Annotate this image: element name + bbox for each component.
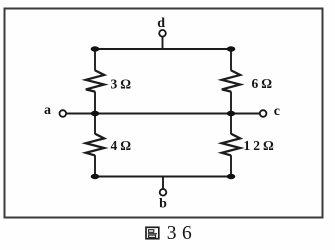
svg-text:d: d — [157, 16, 165, 31]
value label 12 ohm — [244, 138, 277, 153]
svg-text:b: b — [159, 197, 167, 212]
svg-text:36: 36 — [167, 223, 198, 244]
caption glyph "tu" (figure) drawn manually — [146, 227, 159, 238]
wire right branch upper lead — [230, 49, 232, 71]
junction top-left — [91, 46, 100, 51]
caption number 36 — [167, 223, 198, 244]
junction bottom-right — [227, 174, 236, 179]
wire left branch lower lead — [94, 155, 96, 176]
wire left branch mid-lower lead — [94, 114, 96, 135]
junction mid-left — [91, 111, 100, 116]
terminal node a circle — [60, 110, 67, 117]
junction mid-right — [227, 111, 236, 116]
wire right branch mid-lower lead — [230, 114, 232, 135]
wire right branch lower lead — [230, 155, 232, 176]
value label 4 ohm — [111, 138, 135, 153]
svg-text:a: a — [44, 103, 51, 118]
terminal node d circle — [159, 30, 166, 37]
terminal node c circle — [260, 110, 267, 117]
wire bottom rail — [95, 176, 231, 178]
wire right branch mid-upper lead — [230, 91, 232, 113]
junction bottom-left — [91, 174, 100, 179]
svg-text:4Ω: 4Ω — [111, 138, 135, 153]
resistor 12ohm zigzag — [222, 134, 240, 156]
wire top rail — [95, 48, 231, 50]
resistor 4ohm zigzag — [86, 134, 104, 156]
terminal node b circle — [160, 189, 167, 196]
wire middle rail — [66, 113, 259, 115]
wire terminal b stub — [162, 177, 164, 189]
svg-text:3Ω: 3Ω — [111, 76, 135, 91]
border frame (decorative) — [5, 9, 323, 218]
resistor 6ohm zigzag — [222, 70, 240, 91]
wire terminal d stub — [162, 37, 164, 49]
node label c — [274, 104, 280, 119]
wire left branch mid-upper lead — [94, 91, 96, 113]
node label a — [44, 103, 51, 118]
svg-text:c: c — [274, 104, 280, 119]
resistor 3ohm zigzag — [86, 70, 104, 91]
value label 6 ohm — [252, 76, 276, 91]
node label d — [157, 16, 165, 31]
wire left branch upper lead — [94, 49, 96, 71]
junction top-right — [227, 46, 236, 51]
value label 3 ohm — [111, 76, 135, 91]
svg-text:12Ω: 12Ω — [244, 138, 277, 153]
node label b — [159, 197, 167, 212]
svg-text:6Ω: 6Ω — [252, 76, 276, 91]
